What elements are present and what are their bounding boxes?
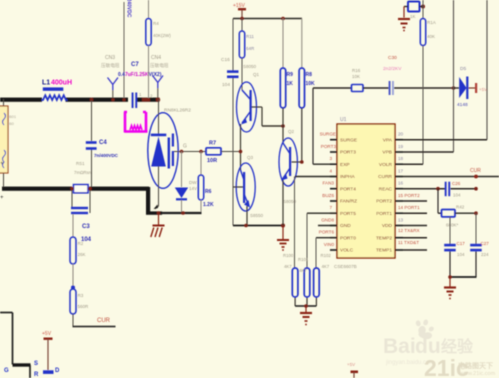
svg-text:0.47uF/1.25KV(X2): 0.47uF/1.25KV(X2) — [118, 72, 162, 78]
junction overlay on bus — [142, 98, 150, 101]
capacitor C17 — [444, 217, 465, 277]
svg-text:+5V: +5V — [42, 331, 52, 337]
svg-text:680K*: 680K* — [446, 223, 459, 228]
svg-text:7mΩRsn: 7mΩRsn — [74, 170, 92, 175]
resistor R9 — [280, 19, 293, 144]
svg-text:13: 13 — [398, 218, 404, 223]
svg-text:D5: D5 — [460, 66, 466, 72]
svg-text:PORT4: PORT4 — [340, 186, 356, 192]
svg-text:18: 18 — [398, 156, 404, 161]
capacitor C27 — [470, 213, 489, 277]
svg-text:R16: R16 — [352, 68, 361, 73]
power +15V — [233, 3, 246, 19]
svg-text:+: + — [0, 161, 4, 167]
svg-text:R100: R100 — [283, 253, 294, 258]
svg-text:www.21ic.com: www.21ic.com — [459, 371, 496, 377]
svg-text:Q1: Q1 — [253, 72, 260, 77]
svg-text:FAN3: FAN3 — [323, 181, 335, 186]
svg-text:R2: R2 — [78, 241, 84, 246]
svg-text:20: 20 — [398, 132, 404, 137]
svg-text:4K7: 4K7 — [322, 264, 330, 269]
svg-text:经验: 经验 — [441, 337, 474, 356]
svg-text:400uH: 400uH — [51, 80, 72, 87]
svg-text:R42: R42 — [456, 205, 465, 210]
svg-text:L1: L1 — [42, 80, 50, 87]
wire: gate to R7 — [174, 150, 206, 154]
svg-text:PORT3: PORT3 — [340, 150, 356, 156]
transformer T1 (yellow box) — [0, 106, 17, 173]
stub TEMP1 — [403, 249, 427, 251]
node: bus/CN4 junction — [156, 98, 160, 102]
svg-text:40K: 40K — [427, 34, 435, 39]
resistor R42 — [438, 189, 478, 228]
svg-text:224: 224 — [481, 252, 489, 257]
svg-text:104: 104 — [222, 82, 230, 88]
wire: VPB vertical — [453, 0, 455, 152]
wire: Q3 emitter to gnd rail — [246, 206, 248, 226]
wire: GND row stub — [318, 225, 337, 227]
svg-text:C3: C3 — [82, 224, 90, 230]
svg-text:CN3: CN3 — [105, 55, 115, 61]
wire: transformer top lead — [3, 99, 5, 106]
svg-text:104: 104 — [457, 252, 465, 257]
wire: VOLR row — [403, 163, 423, 165]
resistor R6 — [198, 152, 214, 214]
svg-text:U1: U1 — [340, 117, 347, 123]
transistor Q3 — [233, 155, 264, 218]
resistor R3 — [70, 264, 89, 314]
svg-text:VOLC: VOLC — [340, 248, 354, 254]
svg-text:R102: R102 — [321, 253, 332, 258]
svg-text:VIN0: VIN0 — [324, 242, 335, 247]
inductor L1 — [42, 80, 73, 101]
svg-text:C16: C16 — [221, 57, 230, 63]
node CUR (left) — [73, 314, 116, 327]
svg-text:3: 3 — [329, 156, 332, 161]
svg-text:CN4: CN4 — [151, 55, 161, 61]
node INPHA wire — [295, 177, 338, 269]
svg-text:D: D — [55, 368, 60, 374]
svg-text:C4: C4 — [99, 140, 107, 146]
capacitor C30 — [383, 55, 453, 95]
svg-text:C27: C27 — [481, 241, 490, 246]
svg-text:S8550: S8550 — [250, 213, 264, 218]
svg-text:1K: 1K — [410, 14, 416, 19]
svg-text:19: 19 — [398, 144, 404, 149]
svg-text:RS1: RS1 — [76, 161, 85, 166]
svg-text:VPA: VPA — [383, 137, 393, 143]
resistor R7 — [206, 141, 241, 165]
node: C4 tap — [90, 98, 94, 102]
watermark 21ic — [424, 355, 496, 378]
device U2 RN8KL26R2 (circled) — [148, 99, 191, 209]
svg-text:14 PORT1: 14 PORT1 — [398, 205, 420, 210]
power +5V (bottom middle) — [347, 362, 358, 378]
resistor R17 (horizontal, top right) — [404, 0, 425, 19]
svg-text:10K: 10K — [306, 81, 316, 87]
svg-text:+: + — [0, 195, 4, 201]
svg-text:TEMP2: TEMP2 — [376, 235, 392, 241]
ground (R100 rail) — [300, 306, 312, 325]
svg-text:B01: B01 — [9, 114, 17, 119]
ground (cap rail) — [444, 277, 456, 299]
diode D5 — [452, 66, 487, 108]
svg-text:C7: C7 — [131, 62, 139, 68]
resistor R1A — [420, 19, 435, 165]
varistor CN3 — [101, 55, 120, 98]
svg-text:PORT5: PORT5 — [340, 211, 356, 217]
resistor R4 (bleed) — [146, 0, 171, 98]
highlight: magenta coil annotation — [124, 112, 148, 133]
wire: top thick bus left segment — [0, 98, 42, 102]
resistor R11 — [239, 19, 255, 91]
svg-text:VOLR: VOLR — [379, 162, 393, 168]
ground (driver rail) — [277, 226, 289, 251]
svg-text:FAN/RZ: FAN/RZ — [340, 199, 357, 205]
wire: VPA row — [403, 139, 487, 141]
node: 240VDC tap — [122, 98, 125, 101]
chip left pin stubs — [330, 140, 337, 250]
svg-text:C26: C26 — [452, 181, 461, 186]
svg-text:RN8KL26R2: RN8KL26R2 — [164, 108, 191, 114]
wire: left edge bottom L — [0, 313, 31, 378]
svg-text:B0: B0 — [9, 121, 15, 126]
svg-text:12 TX&RX: 12 TX&RX — [398, 228, 420, 233]
svg-text:压敏电阻: 压敏电阻 — [150, 62, 169, 69]
svg-text:R101: R101 — [298, 257, 309, 262]
svg-text:R: R — [34, 372, 39, 378]
ground (slanted earth at cathode rail) — [151, 214, 165, 237]
chip right pin numbers / labels — [398, 132, 404, 223]
wire: Q2 emitter down to gnd rail — [282, 180, 284, 226]
svg-text:R9: R9 — [287, 72, 294, 78]
svg-text:GND8: GND8 — [321, 218, 334, 223]
svg-text:CURR: CURR — [378, 174, 392, 180]
svg-text:VPB: VPB — [382, 150, 392, 156]
svg-text:CSE6607B: CSE6607B — [334, 264, 357, 269]
wire: VPB row — [403, 151, 454, 153]
svg-text:CUR: CUR — [97, 318, 111, 324]
wire: PORT5 row — [307, 213, 337, 268]
chip right pin stubs — [395, 140, 403, 250]
svg-text:G: G — [183, 144, 187, 150]
zener DW1 — [175, 152, 200, 214]
resistor R102 — [314, 253, 332, 297]
svg-text:PORT3: PORT3 — [321, 144, 337, 149]
transistor Q1 — [237, 64, 260, 132]
wire: 240VDC feed — [124, 0, 132, 98]
svg-text:C17: C17 — [457, 241, 466, 246]
svg-text:PORT0: PORT0 — [340, 235, 356, 241]
op-amp U1 CSE6607B — [334, 117, 395, 269]
svg-text:GND: GND — [340, 223, 351, 229]
svg-text:7: 7 — [329, 205, 332, 210]
svg-text:240VDC: 240VDC — [126, 0, 132, 18]
svg-text:S: S — [34, 361, 38, 367]
svg-text:REAC: REAC — [379, 186, 393, 192]
svg-text:R11: R11 — [246, 34, 254, 39]
svg-text:EXP: EXP — [340, 162, 350, 168]
svg-text:+5V: +5V — [347, 362, 355, 367]
svg-text:Bai: Bai — [383, 335, 416, 358]
bottom thick bus (right of RS1) — [89, 187, 149, 191]
resistor R8 — [299, 19, 315, 163]
transistor Q2 — [279, 129, 304, 204]
svg-text:Q3: Q3 — [247, 155, 254, 160]
svg-text:R7: R7 — [209, 141, 216, 147]
svg-text:Q2: Q2 — [288, 129, 295, 134]
svg-text:4: 4 — [329, 169, 332, 174]
chip left net labels — [319, 132, 337, 247]
svg-text:560R: 560R — [78, 304, 90, 309]
resistor R16 — [352, 68, 389, 92]
resistor R2 — [70, 214, 86, 264]
svg-text:G: G — [4, 368, 9, 374]
svg-text:R1A: R1A — [427, 20, 436, 25]
wire: REAC row + C26 — [403, 181, 478, 198]
wire: cap bottoms — [448, 275, 476, 279]
svg-text:SURGE: SURGE — [340, 137, 357, 143]
svg-text:C30: C30 — [388, 55, 397, 61]
svg-text:R8: R8 — [306, 72, 313, 78]
svg-text:26K: 26K — [78, 252, 86, 257]
bottom thick bus (left segment) — [2, 187, 72, 191]
svg-text:压敏电阻: 压敏电阻 — [101, 62, 120, 69]
wire: +15V rail — [233, 17, 302, 21]
svg-text:TEMP1: TEMP1 — [376, 248, 392, 254]
gnd rail (driver) — [233, 224, 285, 228]
stub VDD — [403, 225, 427, 227]
wire: transformer bottom lead — [3, 173, 5, 187]
node: CN3 tap — [111, 98, 114, 101]
svg-text:40K(2W): 40K(2W) — [153, 33, 171, 38]
wire: resistor bottoms to gnd — [295, 298, 316, 308]
svg-text:4148: 4148 — [457, 102, 468, 108]
capacitor C3 (across RS1) — [71, 190, 92, 243]
svg-text:104: 104 — [453, 193, 461, 198]
svg-text:1.2K: 1.2K — [203, 202, 214, 208]
svg-text:PORT6: PORT6 — [319, 230, 335, 235]
svg-text:7n/400VDC: 7n/400VDC — [94, 153, 119, 158]
svg-text:电路图天下: 电路图天下 — [458, 361, 493, 370]
wire: Q1 base to node — [252, 107, 285, 128]
svg-text:11 TXD&T: 11 TXD&T — [398, 240, 419, 245]
capacitor C7 (X2 in bus) — [118, 62, 162, 108]
stub TEMP2 — [403, 237, 427, 239]
ground (top right) — [398, 7, 410, 32]
svg-text:64R: 64R — [246, 46, 255, 51]
wire: EXP net (y=88 feed) — [313, 88, 352, 164]
capacitor C16 — [221, 19, 239, 226]
wire: PORT0 row — [316, 238, 337, 268]
svg-text:R4: R4 — [153, 21, 159, 26]
svg-text:14V: 14V — [189, 186, 197, 191]
svg-text:CUR: CUR — [470, 168, 481, 174]
wire: Q1 emitter / Q3 collector — [239, 124, 243, 170]
svg-text:15 PORT2: 15 PORT2 — [398, 193, 420, 198]
power +5V (bottom left) — [42, 331, 60, 374]
svg-text:PORT2: PORT2 — [376, 199, 392, 205]
svg-text:R6: R6 — [205, 189, 212, 195]
svg-text:2n2/2KV: 2n2/2KV — [383, 66, 402, 72]
wire: CUR row — [403, 168, 499, 178]
varistor CN4 — [150, 55, 169, 98]
transistor Q4 labels (cut) — [4, 361, 39, 378]
svg-text:10K: 10K — [352, 74, 360, 79]
svg-text:SURGE: SURGE — [320, 132, 336, 137]
wire: bus elbow to cathode rail — [146, 187, 202, 215]
svg-text:+5V: +5V — [479, 87, 487, 92]
watermark Baidu — [383, 319, 474, 366]
svg-text:R3: R3 — [78, 293, 84, 298]
svg-text:10R: 10R — [207, 158, 217, 164]
wire: VPA vertical — [486, 0, 488, 140]
svg-text:BUZ6: BUZ6 — [322, 193, 334, 198]
svg-text:4K7: 4K7 — [284, 264, 292, 269]
svg-text:INPHA: INPHA — [340, 174, 355, 180]
capacitor C4 — [86, 100, 119, 187]
stub PORT1 — [403, 212, 427, 214]
wire: top bus segment right of C7 — [137, 98, 160, 102]
svg-text:S8050: S8050 — [243, 64, 257, 69]
resistor R101 — [298, 257, 310, 297]
svg-text:VDD: VDD — [382, 223, 393, 229]
svg-text:17: 17 — [398, 169, 404, 174]
svg-text:PORT1: PORT1 — [376, 211, 392, 217]
stub PORT2 — [403, 200, 427, 202]
resistor R100 — [283, 253, 298, 297]
svg-text:1K: 1K — [287, 81, 294, 87]
resistor RS1 (current sense in bus) — [70, 161, 92, 193]
svg-text:4K7: 4K7 — [299, 268, 307, 273]
svg-text:16: 16 — [398, 181, 404, 186]
